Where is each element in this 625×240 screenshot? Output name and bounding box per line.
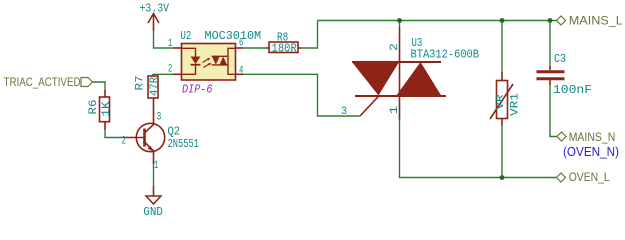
- svg-text:+3.3V: +3.3V: [140, 2, 170, 16]
- wire VR1 top: [501, 21, 503, 73]
- svg-text:MAINS_N: MAINS_N: [569, 130, 616, 144]
- resistor R6: [88, 90, 113, 130]
- wire VR1 bottom: [501, 126, 503, 178]
- resistor R8: [267, 31, 302, 56]
- net label TRIAC_ACTIVED: [4, 75, 93, 89]
- junction triac MT2 on mains rail: [397, 18, 402, 23]
- svg-text:1: 1: [168, 38, 173, 50]
- wire U2 pin6 to R8: [243, 47, 267, 49]
- svg-text:BTA312-600B: BTA312-600B: [411, 48, 480, 62]
- svg-text:VR1: VR1: [510, 93, 522, 116]
- svg-text:1: 1: [154, 160, 159, 172]
- svg-text:VR: VR: [495, 94, 507, 109]
- wire R6 to Q2 base: [105, 130, 124, 138]
- wire Q2 emitter to GND: [153, 164, 155, 186]
- junction VR1 bottom: [500, 175, 505, 180]
- svg-text:2: 2: [389, 43, 401, 51]
- svg-text:(OVEN_N): (OVEN_N): [563, 145, 619, 159]
- svg-text:2N5551: 2N5551: [168, 137, 200, 151]
- svg-text:3: 3: [341, 106, 347, 118]
- svg-text:R7: R7: [135, 76, 147, 91]
- net label OVEN_L: [557, 170, 610, 184]
- wire C3 to MAINS_N: [550, 85, 557, 137]
- wire +3.3V to U2 pin1: [154, 31, 174, 48]
- triac U3 BTA312-600B: [341, 21, 479, 121]
- wire TRIAC_ACTIVED to R6: [93, 82, 106, 90]
- wire C3 top: [549, 21, 551, 67]
- junction C3 top: [548, 18, 553, 23]
- svg-text:2: 2: [168, 64, 172, 76]
- wire R8 to mains rail: [301, 21, 318, 49]
- svg-text:100nF: 100nF: [553, 83, 592, 97]
- transistor Q2: [122, 98, 200, 172]
- svg-text:180R: 180R: [272, 42, 297, 56]
- svg-text:C3: C3: [554, 52, 566, 66]
- svg-text:47R: 47R: [149, 77, 161, 96]
- optocoupler U2 MOC3010M: [168, 29, 261, 97]
- varistor VR1: [490, 72, 522, 126]
- svg-text:4: 4: [239, 65, 244, 77]
- capacitor C3: [537, 52, 593, 97]
- net label MAINS_L: [557, 14, 624, 28]
- svg-text:OVEN_L: OVEN_L: [569, 170, 610, 184]
- resistor R7: [135, 74, 162, 98]
- svg-text:MAINS_L: MAINS_L: [569, 14, 623, 28]
- svg-text:2: 2: [122, 136, 126, 148]
- power +3.3V: [140, 2, 170, 32]
- svg-text:MOC3010M: MOC3010M: [205, 29, 262, 43]
- svg-text:TRIAC_ACTIVED: TRIAC_ACTIVED: [4, 75, 81, 89]
- wire mains_l top rail: [318, 20, 557, 22]
- net label MAINS_N: [557, 130, 615, 144]
- junction VR1 top: [500, 18, 505, 23]
- svg-text:DIP-6: DIP-6: [182, 83, 213, 97]
- svg-text:6: 6: [239, 37, 243, 49]
- wire triac MT1 to bottom rail: [400, 120, 557, 178]
- svg-text:1: 1: [389, 105, 401, 115]
- wire U2 pin4 to triac gate: [243, 74, 360, 116]
- ground GND: [143, 186, 163, 219]
- svg-text:GND: GND: [143, 205, 163, 219]
- svg-text:1K: 1K: [101, 101, 113, 116]
- svg-text:U2: U2: [181, 29, 192, 43]
- svg-text:3: 3: [156, 112, 161, 124]
- svg-text:R6: R6: [88, 100, 100, 115]
- wire U2 pin2 to R7: [153, 73, 173, 75]
